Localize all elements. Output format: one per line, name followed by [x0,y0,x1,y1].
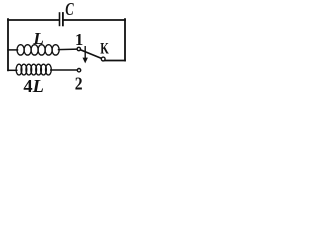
svg-text:K: K [100,41,109,58]
svg-text:1: 1 [75,30,83,49]
svg-text:2: 2 [75,73,83,93]
svg-text:L: L [32,29,44,48]
svg-text:C: C [65,0,74,19]
svg-text:4L: 4L [23,76,44,96]
